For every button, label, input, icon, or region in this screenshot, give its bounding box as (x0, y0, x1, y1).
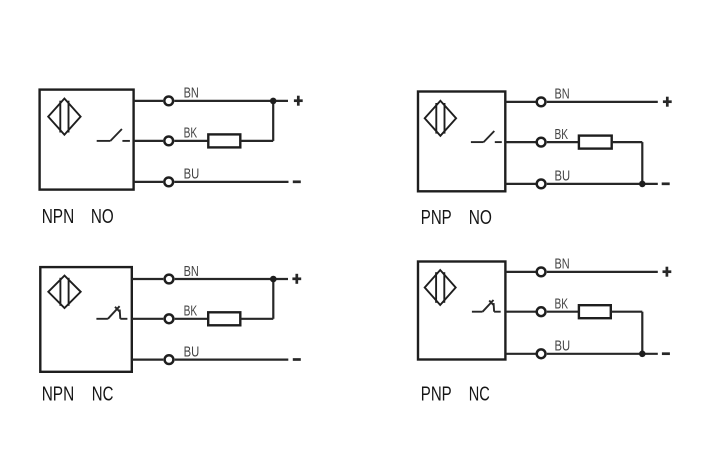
svg-text:BK: BK (184, 303, 198, 320)
svg-text:NO: NO (91, 205, 114, 228)
svg-text:NC: NC (469, 382, 490, 405)
svg-text:BN: BN (184, 263, 199, 280)
svg-text:BK: BK (555, 126, 569, 143)
svg-text:NO: NO (469, 206, 492, 229)
svg-text:PNP: PNP (421, 382, 452, 405)
svg-text:BK: BK (555, 296, 569, 313)
svg-text:BU: BU (184, 343, 200, 360)
svg-text:NPN: NPN (42, 382, 74, 405)
svg-text:NC: NC (92, 382, 114, 405)
svg-text:BU: BU (184, 166, 200, 183)
svg-text:BU: BU (555, 338, 571, 355)
svg-text:BK: BK (184, 125, 198, 142)
svg-text:NPN: NPN (42, 205, 74, 228)
svg-text:BU: BU (555, 168, 571, 185)
svg-text:BN: BN (184, 85, 199, 102)
svg-text:PNP: PNP (421, 206, 452, 229)
svg-text:BN: BN (555, 86, 570, 103)
svg-text:BN: BN (555, 256, 570, 273)
